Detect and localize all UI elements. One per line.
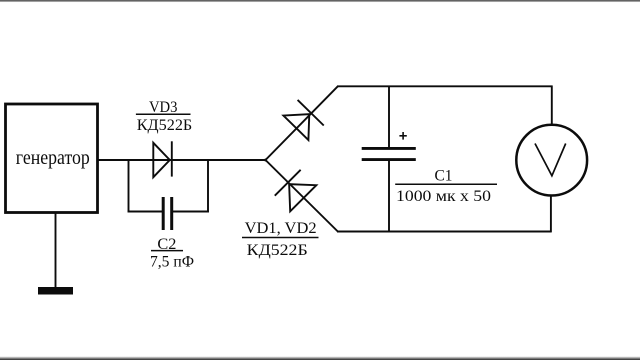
label VD1, VD2	[242, 220, 319, 259]
wire: C2 bottom right segment	[172, 211, 209, 213]
svg-text:генератор: генератор	[16, 147, 90, 169]
diode VD3	[153, 141, 172, 177]
wire: bottom rail	[337, 231, 552, 233]
wire: C2 branch left drop	[128, 159, 130, 212]
generator label	[16, 147, 90, 169]
voltmeter PV1	[516, 125, 587, 196]
wire: C2 branch right drop	[207, 159, 209, 212]
svg-text:VD1, VD2: VD1, VD2	[245, 220, 317, 237]
wire: main horizontal from generator to bridge node A	[98, 159, 266, 161]
wire: voltmeter top drop	[551, 86, 553, 125]
label C1 value	[395, 168, 497, 205]
wire: diagonal down from node A to bottom rail	[265, 159, 338, 232]
label C2 value	[150, 236, 194, 271]
wire: generator bottom to ground	[55, 213, 57, 288]
label VD3	[136, 99, 192, 134]
svg-text:КД522Б: КД522Б	[247, 242, 308, 259]
wire: C1 branch top vertical	[388, 86, 390, 149]
generator G1 box	[6, 104, 98, 213]
wire: C1 branch bottom vertical	[388, 160, 390, 232]
svg-text:C1: C1	[435, 168, 453, 185]
wire: top rail	[337, 85, 552, 87]
capacitor C1 (polarized)	[362, 132, 416, 160]
svg-text:7,5 пФ: 7,5 пФ	[150, 254, 194, 271]
ground	[38, 287, 73, 295]
svg-text:1000 мк x 50: 1000 мк x 50	[396, 188, 491, 205]
wire: C2 bottom left segment	[128, 211, 163, 213]
wire: diagonal up from node A to top rail	[265, 86, 338, 161]
svg-text:VD3: VD3	[149, 99, 178, 116]
diode VD1 (upper bridge diode)	[283, 100, 324, 141]
diode VD2 (lower bridge diode)	[275, 170, 317, 212]
wire: voltmeter bottom riser	[550, 196, 552, 233]
capacitor C2	[163, 197, 172, 230]
svg-text:КД522Б: КД522Б	[137, 117, 193, 134]
